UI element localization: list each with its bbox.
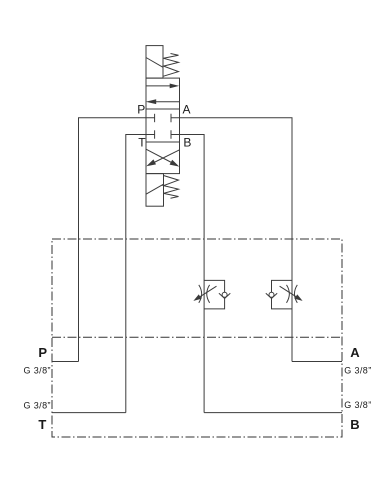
svg-text:P: P xyxy=(137,103,145,117)
svg-text:P: P xyxy=(38,345,47,360)
svg-text:T: T xyxy=(38,417,46,432)
svg-text:A: A xyxy=(350,345,360,360)
svg-text:G 3/8”: G 3/8” xyxy=(344,366,371,376)
svg-text:B: B xyxy=(350,417,359,432)
svg-text:T: T xyxy=(138,135,146,149)
svg-text:G 3/8”: G 3/8” xyxy=(23,400,50,410)
svg-text:G 3/8”: G 3/8” xyxy=(23,366,50,376)
svg-text:G 3/8”: G 3/8” xyxy=(344,400,371,410)
svg-text:B: B xyxy=(183,135,191,149)
svg-text:A: A xyxy=(183,103,191,117)
